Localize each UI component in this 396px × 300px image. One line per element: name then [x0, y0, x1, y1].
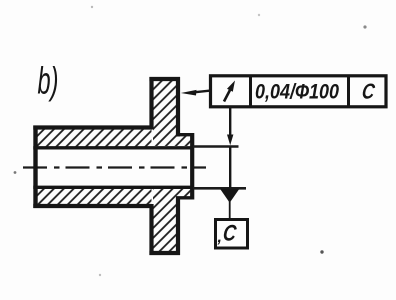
part outline: bore bottom line [33, 186, 192, 189]
part outline: flange top edge [149, 77, 180, 81]
datum letter C in frame [361, 80, 377, 104]
part outline: right end face [190, 133, 194, 200]
scan speck bottom-left [99, 274, 101, 276]
svg-text:,: , [217, 229, 222, 246]
scan speck top-left [91, 6, 93, 8]
part outline: flange bottom edge [149, 251, 180, 255]
svg-text:0,04/Ф100: 0,04/Ф100 [255, 80, 339, 104]
part outline: right step top line [176, 133, 194, 136]
datum box C [216, 220, 248, 249]
part outline: flange left face (upper segment) [149, 77, 153, 130]
vertical leader continues to datum [229, 147, 231, 188]
hatched section: flange lower [153, 189, 191, 252]
centerline (axis) [23, 166, 206, 168]
part outline: tube bottom OD line [33, 204, 151, 208]
label b) [38, 59, 59, 102]
scan speck left of axis [14, 171, 17, 174]
part outline: right step bottom line [176, 196, 194, 199]
scan speck bottom-right [320, 250, 323, 253]
svg-text:b): b) [38, 59, 59, 102]
scan speck top-right [363, 25, 366, 28]
tolerance frame [211, 76, 387, 107]
part outline: flange left face (lower segment) [149, 204, 153, 255]
hatched section: flange upper [153, 81, 191, 147]
extension line (upper, measured surface) [193, 145, 239, 147]
part outline: tube top OD line [33, 125, 151, 129]
scan speck top-middle [258, 14, 260, 16]
leader arrow from frame to flange face [181, 90, 211, 96]
datum triangle (filled) on lower extension line [220, 189, 239, 203]
hatched section: bottom tube wall [36, 189, 152, 205]
part outline: tube left end face [33, 126, 37, 209]
link line from triangle to datum box [229, 201, 231, 219]
extension line (lower, datum surface) [193, 187, 246, 190]
part outline: bore top line [33, 146, 192, 149]
part outline: flange right face (upper segment) [176, 77, 180, 137]
tolerance value text 0,04/Ф100 [255, 80, 339, 104]
hatched section: top tube wall [36, 129, 152, 147]
vertical leader from frame down (upper part with arrowhead) [227, 106, 233, 145]
runout symbol (slanted arrow) in first cell [224, 81, 235, 102]
part outline: flange right face (lower segment) [176, 197, 180, 256]
